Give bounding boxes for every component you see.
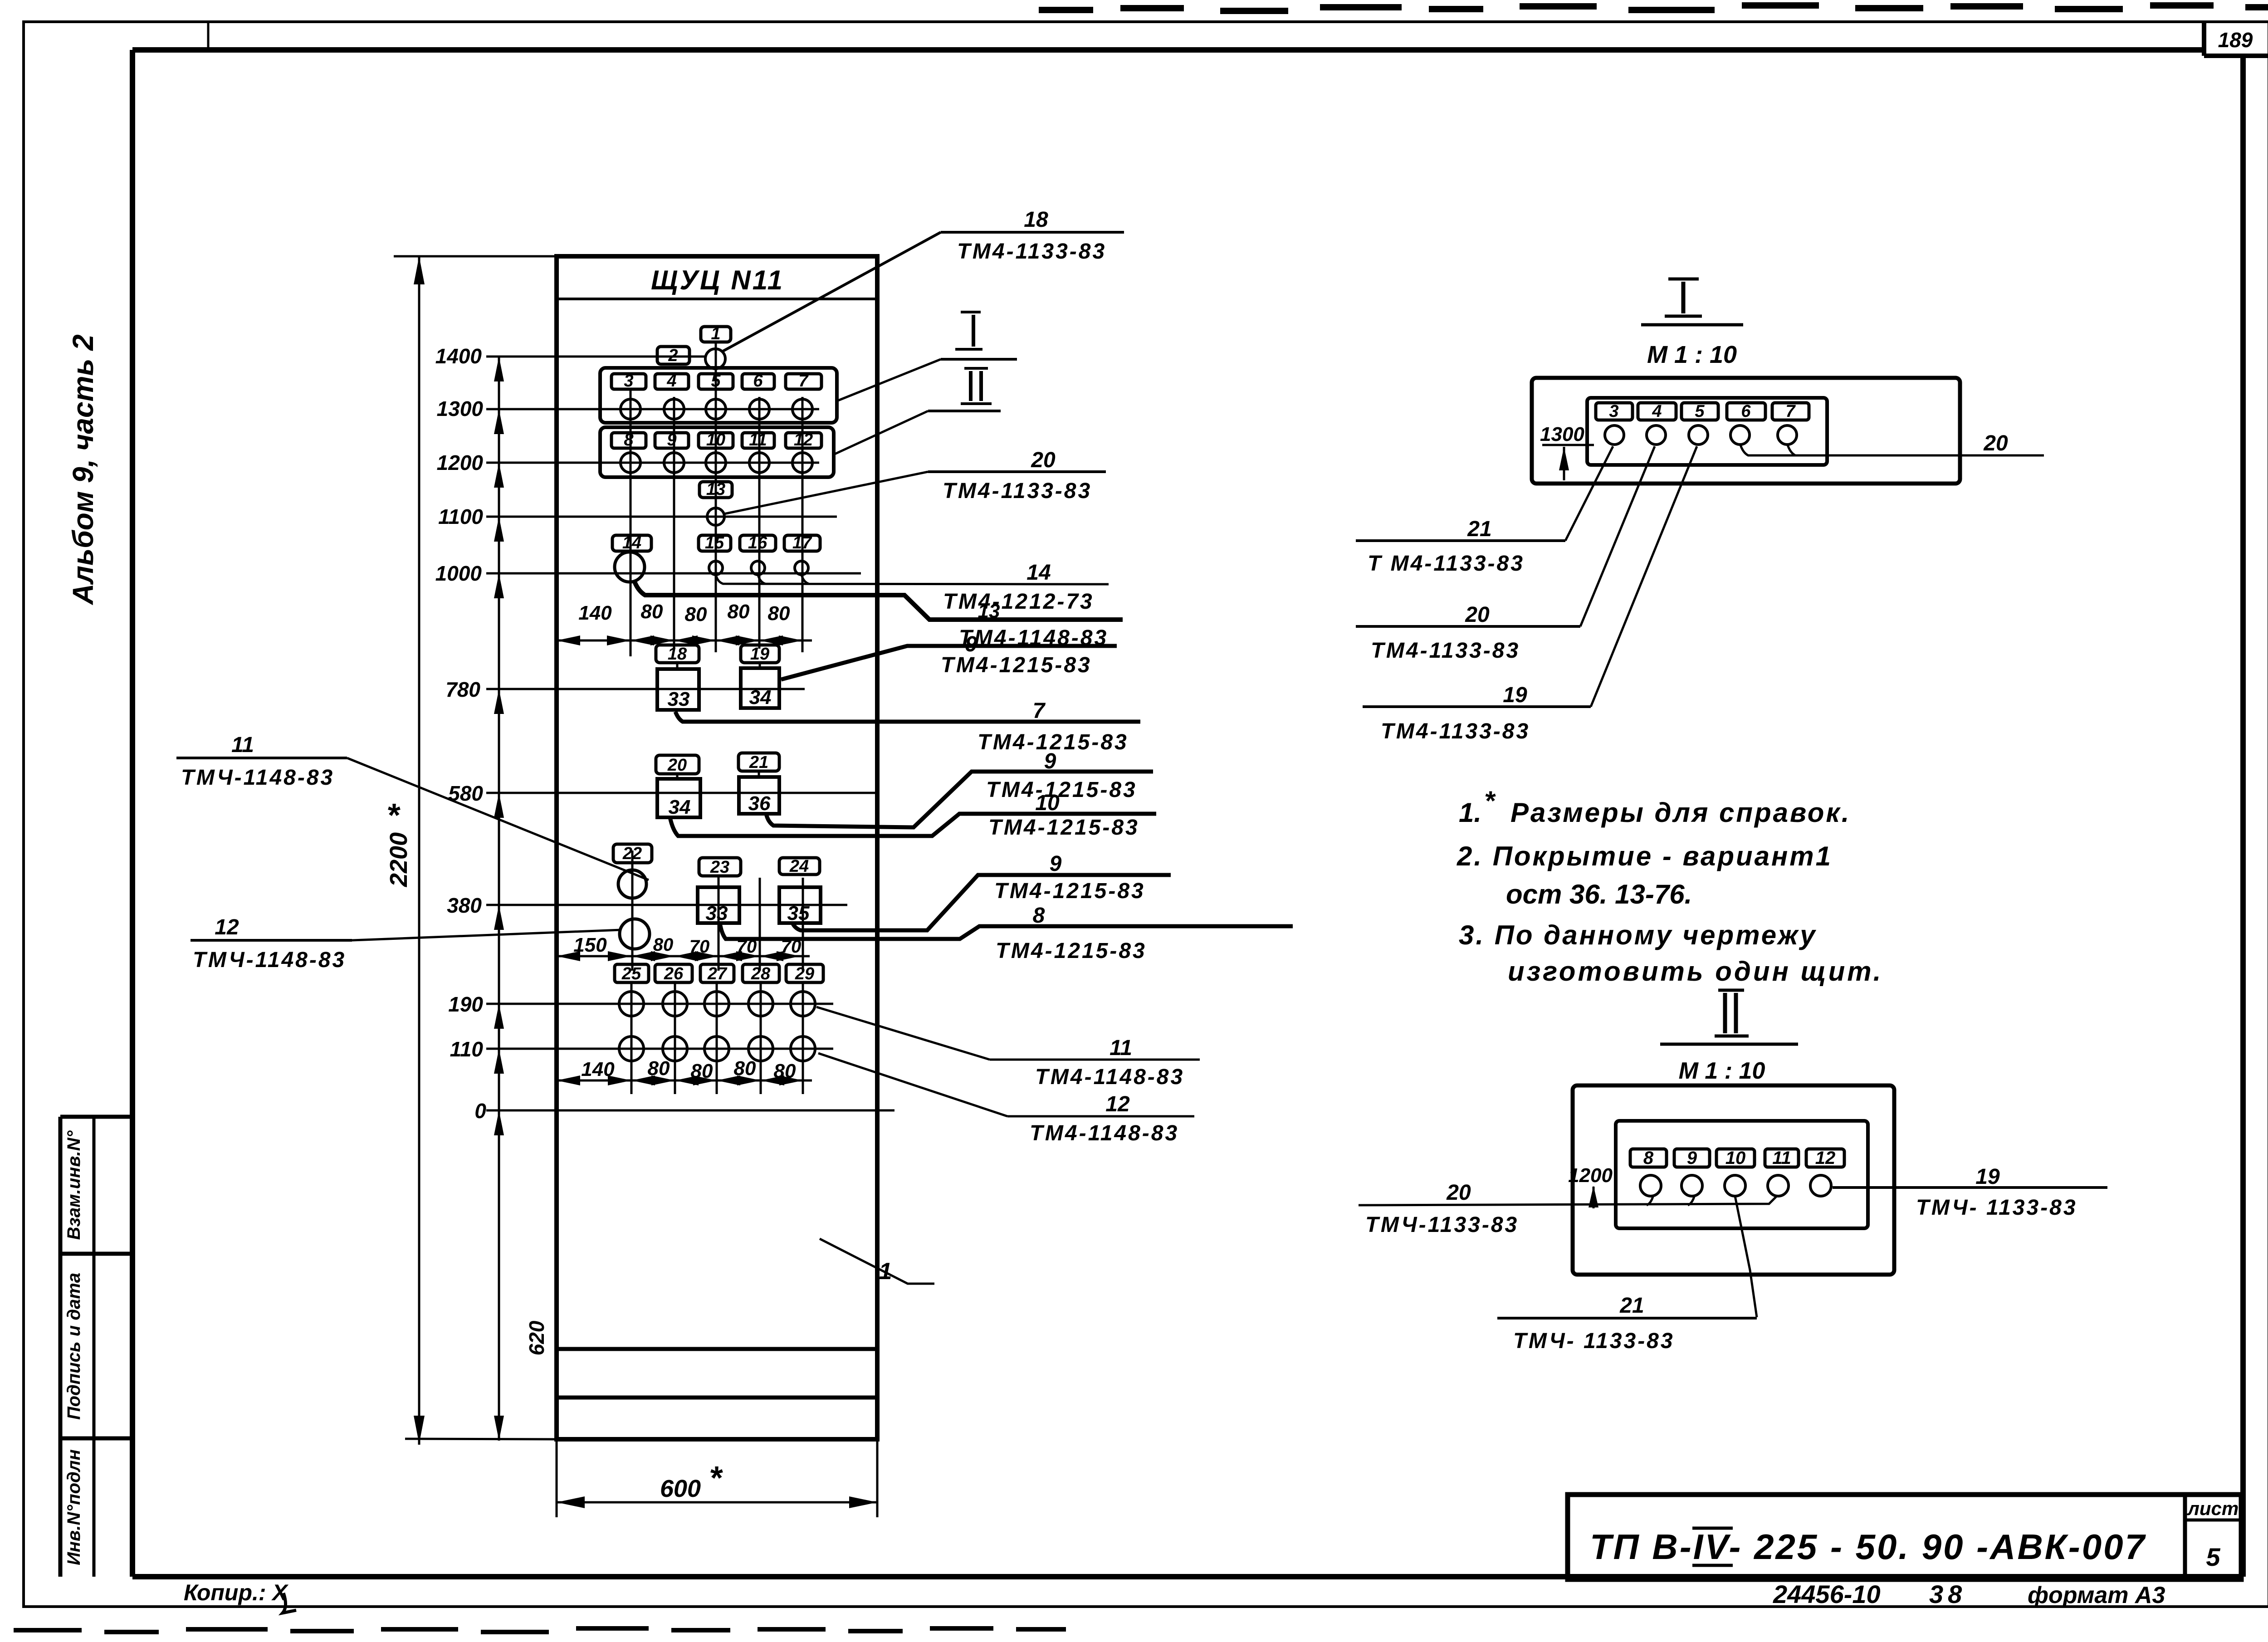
lamp circles row 1200	[621, 453, 640, 473]
svg-text:4: 4	[666, 371, 676, 391]
width dim 600 extension lines	[556, 1439, 558, 1517]
leader label 11 TM4-1148-83 right	[990, 1059, 1200, 1061]
level centerline 1200	[486, 462, 819, 464]
group box rows 3-7	[600, 368, 837, 423]
section I heading mark	[1668, 278, 1699, 281]
lamp circles row 1300	[621, 399, 640, 419]
svg-text:*: *	[1484, 786, 1496, 816]
item box 11	[742, 433, 774, 448]
detail I outer box	[1532, 378, 1960, 484]
detail II inner box	[1616, 1121, 1868, 1228]
panel lower rail line 2	[557, 1396, 877, 1400]
svg-text:ТМЧ- 1133-83: ТМЧ- 1133-83	[1916, 1196, 2077, 1220]
detail II item box 9	[1674, 1149, 1710, 1167]
svg-text:20: 20	[1446, 1181, 1471, 1205]
svg-text:1100: 1100	[438, 505, 483, 528]
svg-text:27: 27	[707, 964, 728, 983]
svg-text:18: 18	[668, 645, 687, 664]
leader label 20 TM4-1133-83	[928, 470, 1106, 473]
svg-text:80: 80	[641, 601, 663, 623]
svg-text:34: 34	[749, 686, 772, 709]
svg-text:ТМЧ-1133-83: ТМЧ-1133-83	[1365, 1213, 1519, 1237]
svg-text:12: 12	[794, 430, 813, 450]
svg-text:140: 140	[578, 602, 612, 624]
svg-text:ТМ4-1215-83: ТМ4-1215-83	[988, 816, 1139, 840]
lamp circles row 190	[619, 992, 644, 1016]
link box20-box34	[676, 774, 679, 779]
level centerline 0	[486, 1109, 894, 1112]
item box 4	[655, 374, 689, 389]
svg-text:26: 26	[664, 964, 684, 983]
detail II item box 11	[1765, 1149, 1799, 1167]
svg-text:19: 19	[1503, 683, 1527, 707]
svg-text:5: 5	[1695, 402, 1705, 421]
bottom spacing dim line 140-80s	[557, 1080, 812, 1082]
title block frame	[1568, 1495, 2241, 1579]
svg-text:780: 780	[445, 678, 480, 701]
item box 9	[655, 433, 689, 448]
leader label 18 TM4-1133-83	[941, 231, 1124, 234]
item box 16	[740, 535, 776, 551]
svg-text:11: 11	[1772, 1148, 1791, 1168]
svg-text:600: 600	[660, 1475, 701, 1502]
level centerline 1300	[486, 408, 819, 410]
svg-text:620: 620	[525, 1320, 548, 1355]
svg-text:1000: 1000	[435, 562, 482, 585]
detail II circles	[1640, 1175, 1661, 1196]
svg-text:24: 24	[789, 857, 809, 876]
level chain dim line	[498, 357, 500, 1441]
chain arrows	[494, 357, 504, 381]
sidebar stamp table	[59, 1117, 63, 1577]
svg-text:М 1 : 10: М 1 : 10	[1647, 341, 1737, 368]
detail I leader 20 TM4-1133-83	[1356, 625, 1580, 628]
svg-text:ТМЧ-1148-83: ТМЧ-1148-83	[193, 948, 346, 972]
svg-text:9: 9	[1687, 1148, 1697, 1168]
svg-text:28: 28	[751, 964, 771, 983]
svg-text:Т М4-1133-83: Т М4-1133-83	[1368, 552, 1525, 576]
svg-text:9: 9	[1050, 852, 1062, 876]
square box 36 row 580	[739, 777, 779, 814]
svg-text:1200: 1200	[437, 451, 484, 474]
svg-text:23: 23	[710, 858, 729, 877]
svg-text:11: 11	[231, 733, 254, 757]
svg-text:21: 21	[1619, 1294, 1644, 1318]
panel header line	[557, 298, 877, 300]
detail II item box 10	[1716, 1149, 1755, 1167]
leader label 12 TM4-1148-83 right	[1007, 1115, 1194, 1118]
overall dim line 2200	[418, 256, 420, 1445]
svg-text:5: 5	[2206, 1543, 2220, 1571]
square box 33 row 380	[698, 887, 739, 923]
small circles 15 16 17 at 1000	[709, 561, 723, 575]
detail I inner box	[1587, 398, 1827, 465]
svg-text:380: 380	[447, 894, 482, 917]
item box 21	[738, 753, 779, 771]
svg-text:ТМ4-1133-83: ТМ4-1133-83	[943, 479, 1092, 503]
inner drawing frame	[132, 47, 2204, 53]
square box 34 row 780	[741, 668, 779, 708]
column centerline c5	[802, 397, 804, 652]
level centerline 1400	[486, 356, 706, 358]
svg-text:15: 15	[705, 533, 724, 552]
leader label 13 TM4-1148-83	[634, 581, 1123, 620]
svg-text:1300: 1300	[437, 397, 484, 420]
square box 34 row 580	[657, 779, 700, 817]
svg-text:9: 9	[1044, 749, 1056, 773]
svg-text:21: 21	[1467, 517, 1491, 541]
svg-text:80: 80	[728, 601, 750, 623]
svg-text:4: 4	[1652, 402, 1662, 421]
item box 25	[615, 964, 649, 982]
level centerline 1000	[486, 572, 861, 575]
item box 22	[613, 844, 652, 863]
detail II leader 19 TM4-1133-83	[1833, 1186, 2107, 1189]
detail I leader 21 TM4-1133-83	[1356, 539, 1565, 542]
svg-text:13: 13	[706, 480, 725, 499]
svg-text:20: 20	[1031, 448, 1056, 472]
panel lower rail line 1	[557, 1347, 877, 1351]
lamp circles row 110	[619, 1036, 644, 1061]
svg-text:1.: 1.	[1459, 797, 1481, 828]
svg-text:14: 14	[622, 533, 641, 552]
panel outline ЩУЦ N11	[557, 256, 877, 1439]
detail I item box 6	[1727, 403, 1765, 420]
svg-text:10: 10	[1725, 1148, 1746, 1168]
item box 10	[699, 433, 733, 448]
svg-text:ТМ4-1215-83: ТМ4-1215-83	[986, 778, 1137, 802]
detail II outer box	[1573, 1085, 1894, 1275]
link box21-box36	[758, 771, 760, 777]
svg-text:9: 9	[667, 430, 676, 450]
square box 35 row 380	[779, 887, 821, 923]
top spacing dim line 140-80s	[557, 640, 812, 642]
item box 28	[743, 964, 779, 982]
leader label 11 TM4-1148-83 left	[176, 757, 347, 759]
svg-text:3: 3	[624, 371, 633, 391]
section II heading mark	[1718, 989, 1744, 992]
page number box 189	[2202, 22, 2206, 56]
svg-text:6: 6	[753, 371, 763, 391]
item box 26	[655, 964, 692, 982]
item box 5	[699, 374, 733, 389]
fold mark tick top-left	[207, 22, 210, 50]
svg-text:Размеры для справок.: Размеры для справок.	[1510, 797, 1851, 828]
svg-text:ТМ4-1148-83: ТМ4-1148-83	[1035, 1065, 1184, 1089]
svg-text:2200: 2200	[385, 832, 412, 887]
svg-text:17: 17	[792, 533, 812, 552]
svg-text:33: 33	[706, 902, 728, 924]
svg-text:ТМ4-1215-83: ТМ4-1215-83	[996, 939, 1147, 963]
svg-text:7: 7	[1785, 402, 1796, 421]
svg-text:189: 189	[2218, 28, 2253, 52]
svg-text:80: 80	[734, 1057, 756, 1080]
middle spacing dim line 150-80-70s	[557, 955, 810, 958]
svg-text:1300: 1300	[1540, 423, 1584, 445]
svg-text:150: 150	[573, 934, 607, 956]
svg-text:29: 29	[795, 964, 814, 983]
svg-text:изготовить один щит.: изготовить один щит.	[1508, 956, 1883, 987]
svg-text:16: 16	[748, 533, 767, 552]
width dim line 600	[557, 1501, 877, 1504]
svg-text:21: 21	[749, 753, 768, 772]
svg-text:20: 20	[1983, 431, 2008, 455]
svg-text:36: 36	[748, 792, 771, 815]
svg-text:лист: лист	[2187, 1498, 2239, 1519]
item box 15	[699, 535, 731, 551]
item box 1	[701, 327, 731, 342]
svg-text:2: 2	[668, 346, 678, 365]
level centerline 1100	[486, 516, 837, 518]
link box19-box34	[759, 663, 761, 668]
detail II leader 21 TM4-1133-83	[1735, 1196, 1757, 1317]
detail II leader 20 TM4-1133-83	[1647, 1195, 1695, 1205]
leader label 1 panel	[820, 1239, 934, 1284]
link box18-box33	[676, 663, 679, 669]
svg-text:19: 19	[750, 645, 769, 664]
svg-text:80: 80	[691, 1060, 713, 1082]
detail II item box 12	[1806, 1149, 1844, 1167]
svg-text:80: 80	[774, 1060, 796, 1082]
item box 3	[611, 374, 646, 389]
svg-text:80: 80	[648, 1057, 670, 1080]
svg-text:ТМ4-1215-83: ТМ4-1215-83	[941, 653, 1092, 677]
detail I leader 20 right	[1740, 444, 1799, 455]
scan artifact dashes bottom edge	[14, 1628, 1066, 1632]
item box 29	[786, 964, 823, 982]
svg-text:190: 190	[448, 992, 483, 1016]
item box 27	[700, 964, 734, 982]
detail I item box 5	[1681, 403, 1718, 420]
detail I item box 3	[1596, 403, 1633, 420]
svg-text:0: 0	[474, 1099, 486, 1123]
svg-text:Инв.N°подлн: Инв.N°подлн	[64, 1449, 84, 1565]
level centerline 190	[486, 1003, 833, 1005]
item box 23	[699, 858, 741, 876]
item box 13	[699, 482, 732, 498]
svg-text:38: 38	[1929, 1580, 1966, 1608]
scan artifact dashes top edge	[1039, 5, 2268, 11]
svg-text:*: *	[386, 797, 401, 834]
svg-text:25: 25	[621, 964, 641, 983]
device circle below 22	[620, 919, 650, 949]
item box 7	[786, 374, 821, 389]
svg-text:ТМЧ-1148-83: ТМЧ-1148-83	[181, 766, 334, 790]
item box 12	[786, 433, 821, 448]
svg-text:1200: 1200	[1568, 1164, 1613, 1187]
column centerline c1	[630, 389, 632, 656]
svg-text:ТМ4-1148-83: ТМ4-1148-83	[1030, 1121, 1179, 1145]
svg-text:11: 11	[1110, 1036, 1132, 1060]
detail I circles	[1605, 425, 1624, 445]
big device circle 14 at 1000	[615, 552, 645, 582]
IV overline underline	[1692, 1527, 1733, 1530]
item box 17	[784, 535, 820, 551]
leader label 9 TM4-1215-83 row380	[792, 875, 1171, 930]
group box rows 8-12	[600, 427, 834, 477]
svg-text:Копир.: Х: Копир.: Х	[184, 1580, 288, 1605]
svg-text:7: 7	[798, 371, 809, 391]
item box 24	[779, 858, 820, 875]
svg-text:11: 11	[749, 430, 767, 450]
svg-text:Подпись и дата: Подпись и дата	[64, 1273, 84, 1420]
svg-text:формат А3: формат А3	[2028, 1582, 2165, 1608]
leader label 12 TM4-1148-83 left	[191, 939, 352, 942]
lamp circle 1 at 1400	[705, 349, 725, 369]
svg-text:М 1 : 10: М 1 : 10	[1679, 1058, 1765, 1084]
device circle 22	[618, 870, 646, 898]
leader label 14 TM4-1212-73	[716, 575, 1109, 584]
svg-text:8: 8	[1033, 904, 1045, 928]
svg-text:1400: 1400	[435, 344, 482, 368]
item box 18	[656, 645, 699, 663]
svg-text:ТМ4-1133-83: ТМ4-1133-83	[957, 239, 1106, 264]
svg-text:ТП В-IV- 225 - 50. 90 -АВК-007: ТП В-IV- 225 - 50. 90 -АВК-007	[1590, 1527, 2146, 1567]
svg-text:7: 7	[1033, 699, 1046, 723]
svg-text:1: 1	[711, 324, 720, 343]
svg-text:ТМ4-1212-73: ТМ4-1212-73	[943, 590, 1094, 614]
svg-text:19: 19	[1975, 1165, 2000, 1189]
item box 20	[656, 755, 699, 774]
item box 14	[612, 535, 651, 551]
svg-text:ост 36. 13-76.: ост 36. 13-76.	[1506, 879, 1692, 909]
svg-text:12: 12	[1105, 1092, 1130, 1116]
svg-text:14: 14	[1026, 561, 1051, 585]
svg-text:20: 20	[1465, 603, 1490, 627]
svg-text:10: 10	[706, 430, 725, 450]
column centerline c3	[715, 341, 717, 652]
svg-text:8: 8	[624, 430, 634, 450]
leader label 9 TM4-1215-83 row780	[781, 646, 1117, 679]
column centerline c4	[758, 397, 761, 649]
detail I item box 4	[1638, 403, 1676, 420]
svg-text:20: 20	[667, 756, 687, 775]
svg-text:24456-10: 24456-10	[1773, 1580, 1881, 1608]
svg-text:*: *	[709, 1460, 723, 1496]
leader label 7 TM4-1215-83	[675, 712, 1140, 722]
item box 6	[742, 374, 774, 389]
square box 33 row 780	[657, 669, 699, 710]
svg-text:34: 34	[669, 796, 691, 818]
svg-text:ТМ4-1215-83: ТМ4-1215-83	[994, 879, 1145, 903]
svg-text:1: 1	[879, 1258, 892, 1285]
svg-text:8: 8	[1643, 1148, 1654, 1168]
svg-text:13: 13	[978, 600, 1000, 622]
svg-text:10: 10	[1035, 791, 1060, 815]
svg-text:3: 3	[1609, 402, 1618, 421]
svg-text:ТМ4-1133-83: ТМ4-1133-83	[1381, 719, 1530, 743]
item box 2	[657, 347, 689, 364]
detail II item box 8	[1630, 1149, 1667, 1167]
svg-text:110: 110	[450, 1037, 484, 1061]
svg-text:35: 35	[787, 902, 810, 924]
lamp circle 13 at 1100	[707, 508, 724, 525]
svg-text:70: 70	[689, 937, 710, 957]
svg-text:18: 18	[1024, 208, 1048, 232]
level centerline 380	[486, 904, 847, 906]
svg-text:80: 80	[768, 602, 790, 625]
svg-text:140: 140	[581, 1058, 615, 1080]
level centerline 580	[486, 792, 875, 794]
detail I leader 19 TM4-1133-83	[1363, 705, 1591, 708]
svg-text:Альбом 9, часть 2: Альбом 9, часть 2	[67, 334, 99, 606]
leader label 8 TM4-1215-83	[720, 923, 1293, 939]
section mark II with leader	[964, 367, 988, 370]
svg-text:ТМЧ- 1133-83: ТМЧ- 1133-83	[1513, 1329, 1675, 1353]
svg-text:6: 6	[1741, 402, 1751, 421]
svg-text:22: 22	[622, 844, 642, 863]
svg-text:2. Покрытие - вариант1: 2. Покрытие - вариант1	[1457, 841, 1833, 871]
svg-text:3. По данному чертежу: 3. По данному чертежу	[1459, 920, 1817, 950]
svg-text:80: 80	[685, 603, 707, 626]
svg-text:80: 80	[653, 935, 674, 955]
level centerline 110	[486, 1048, 833, 1050]
column centerline c2	[673, 397, 675, 649]
item box 19	[741, 645, 779, 663]
level centerline 780	[486, 688, 805, 690]
svg-text:ЩУЦ N11: ЩУЦ N11	[651, 265, 784, 295]
svg-text:33: 33	[668, 688, 690, 710]
svg-text:Взам.инв.N°: Взам.инв.N°	[64, 1130, 84, 1240]
svg-text:12: 12	[215, 915, 239, 939]
svg-text:ТМ4-1133-83: ТМ4-1133-83	[1371, 639, 1520, 663]
section mark I with leader	[961, 311, 981, 313]
leader label 9 TM4-1215-83 row580	[766, 772, 1153, 827]
svg-text:5: 5	[711, 371, 721, 391]
detail I item box 7	[1772, 403, 1809, 420]
svg-text:12: 12	[1815, 1148, 1836, 1168]
item box 8	[611, 433, 646, 448]
leader label 10 TM4-1215-83	[670, 814, 1156, 836]
